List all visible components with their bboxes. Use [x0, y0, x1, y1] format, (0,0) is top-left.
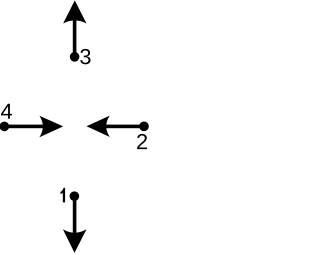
node dot 3	[70, 52, 80, 62]
vector arrow 3 (upward)	[63, 0, 90, 64]
label 1	[61, 188, 66, 203]
vector arrow 1 (downward)	[61, 188, 87, 253]
wire shaft 2	[105, 125, 144, 129]
label 2	[137, 134, 147, 149]
label 4	[1, 104, 12, 119]
wire shaft 4	[4, 125, 43, 129]
arrowhead 1	[63, 229, 87, 253]
vector arrow 2 (leftward)	[87, 116, 149, 150]
arrowhead 4	[39, 116, 63, 138]
node dot 1	[70, 191, 80, 201]
node dot 2	[139, 122, 149, 132]
arrowhead 2	[87, 116, 110, 137]
node dot 4	[0, 122, 9, 132]
vector arrow 4 (rightward)	[0, 104, 63, 137]
arrowhead 3	[63, 0, 86, 23]
label 3	[80, 49, 90, 64]
wire shaft 3	[73, 19, 77, 57]
wire shaft 1	[73, 196, 77, 234]
